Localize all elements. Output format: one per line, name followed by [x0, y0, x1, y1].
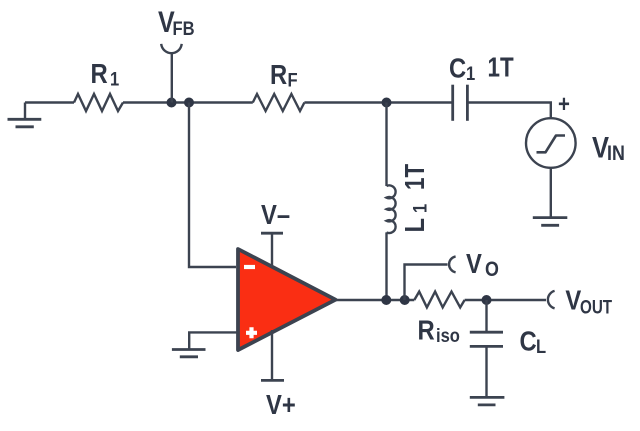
label VIN: [592, 131, 625, 166]
node (CL junction): [482, 295, 492, 305]
svg-text:V: V: [466, 247, 482, 279]
ground (at non-inverting input): [172, 350, 206, 357]
svg-text:OUT: OUT: [580, 296, 612, 318]
wire op-amp output: [336, 299, 415, 301]
supply rail V+ (stem and bar): [261, 330, 284, 380]
label VO: [466, 247, 499, 281]
probe VO (stub and arc): [405, 256, 456, 300]
svg-text:1: 1: [110, 68, 119, 90]
label RF: [270, 58, 298, 91]
svg-text:R: R: [91, 57, 108, 89]
wire non-inverting input to ground: [189, 332, 238, 349]
svg-text:FB: FB: [173, 18, 195, 40]
op-amp U1: [238, 249, 336, 350]
ground (below VIN): [533, 218, 568, 226]
wire VIN to ground: [550, 168, 552, 218]
svg-text:V–: V–: [261, 198, 290, 230]
wire node to inverting input: [189, 103, 236, 268]
svg-text:L: L: [398, 218, 430, 233]
node (L1 top junction): [382, 98, 392, 108]
wire RF to C1: [304, 101, 452, 103]
wire ground to R1: [25, 101, 74, 103]
svg-text:V+: V+: [266, 388, 296, 420]
svg-text:+: +: [558, 90, 570, 117]
supply rail V- (bar and stem): [261, 233, 283, 268]
svg-text:1: 1: [409, 204, 431, 213]
wire node down to L1: [385, 103, 387, 187]
resistor R1: [74, 94, 123, 111]
svg-text:O: O: [485, 258, 499, 282]
node (output, dot 1): [381, 295, 391, 305]
svg-text:C: C: [449, 52, 466, 84]
svg-text:1: 1: [466, 63, 475, 85]
node (feedback junction, dot 2): [184, 98, 194, 108]
source VIN (circle with slew symbol): [526, 118, 576, 168]
label C1: [449, 52, 475, 85]
svg-text:R: R: [418, 314, 435, 346]
probe VOUT (arc): [548, 291, 555, 308]
label VOUT: [565, 284, 612, 318]
label L1 1T (rotated): [398, 163, 431, 232]
resistor Riso: [414, 292, 464, 308]
wire node to CL: [485, 300, 487, 332]
capacitor C1: [453, 85, 468, 121]
wire Riso to VOUT: [465, 299, 546, 301]
wire L1 to output node: [385, 232, 387, 300]
svg-text:F: F: [288, 69, 298, 91]
node (feedback junction, dot 1): [167, 98, 177, 108]
svg-text:1T: 1T: [400, 163, 431, 190]
probe VFB (stem and arc): [161, 44, 182, 103]
label VFB: [158, 5, 195, 39]
svg-text:1T: 1T: [488, 52, 515, 83]
svg-text:C: C: [520, 325, 537, 357]
wire C1 to VIN source: [467, 103, 550, 119]
resistor RF: [253, 94, 305, 111]
inductor L1: [387, 185, 396, 233]
node (output, dot 2): [400, 295, 410, 305]
capacitor CL: [470, 332, 503, 346]
label Riso: [418, 314, 460, 347]
ground (below CL): [470, 397, 505, 405]
label R1: [91, 57, 120, 90]
wire R1 to summing node: [123, 101, 253, 103]
ground (left, at R1 input): [8, 103, 42, 127]
label CL: [520, 325, 547, 358]
svg-text:L: L: [536, 336, 546, 358]
svg-text:iso: iso: [436, 325, 460, 347]
svg-text:IN: IN: [607, 142, 625, 166]
svg-text:R: R: [270, 58, 287, 90]
wire CL to ground: [485, 346, 487, 397]
